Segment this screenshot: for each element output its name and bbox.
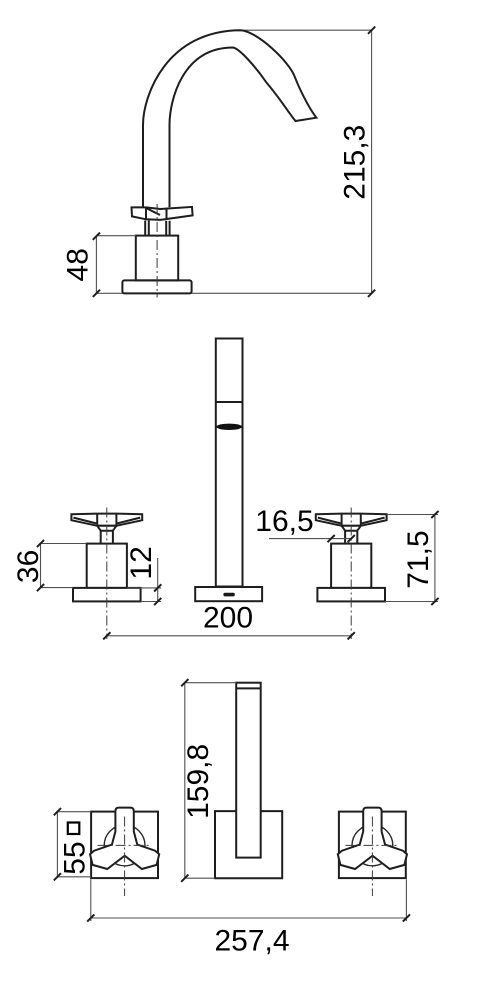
- svg-text:55: 55: [59, 841, 92, 874]
- svg-text:16,5: 16,5: [255, 505, 313, 538]
- svg-text:200: 200: [203, 602, 253, 635]
- svg-text:159,8: 159,8: [182, 744, 215, 819]
- svg-text:71,5: 71,5: [402, 530, 435, 588]
- svg-text:257,4: 257,4: [214, 925, 289, 958]
- svg-text:215,3: 215,3: [339, 125, 372, 200]
- svg-text:48: 48: [62, 248, 95, 281]
- svg-text:12: 12: [125, 546, 158, 579]
- svg-text:36: 36: [12, 550, 45, 583]
